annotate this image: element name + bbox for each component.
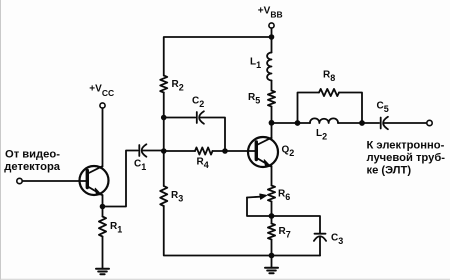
- resistor R4: [195, 147, 213, 154]
- node R6/R7/C3 junction: [269, 213, 275, 219]
- capacitor C3: [314, 234, 326, 256]
- +Vbb terminal: [269, 23, 274, 28]
- wire node to node: [163, 118, 165, 152]
- wire Vcc to Q1 collector: [102, 108, 104, 166]
- wire emitter node to C1: [103, 151, 138, 207]
- wire R1 to ground: [102, 237, 104, 269]
- svg-text:ке (ЭЛТ): ке (ЭЛТ): [367, 165, 412, 177]
- transistor Q2: [248, 137, 278, 167]
- +Vcc terminal: [100, 103, 105, 108]
- resistor R5: [268, 91, 275, 107]
- wire Q2 emitter to R6: [271, 166, 273, 186]
- node Q2 collector junction: [269, 120, 275, 126]
- inductor L2: [310, 118, 338, 123]
- node L2 left junction: [295, 120, 301, 126]
- node C2/R4 junction: [222, 148, 228, 154]
- node L2 right junction: [359, 120, 365, 126]
- wire node to R1: [102, 207, 104, 217]
- wire Q1 emitter to node: [102, 195, 104, 207]
- capacitor C2: [197, 111, 225, 151]
- wire top rail: [164, 37, 272, 76]
- node C1/R4/R3 junction: [161, 148, 167, 154]
- resistor R7: [268, 224, 275, 240]
- wire collector node to Q2: [271, 123, 273, 139]
- wire R2 to node: [163, 93, 165, 118]
- node bottom rail junction: [269, 253, 275, 259]
- wire C3 branch bottom: [272, 255, 321, 257]
- node R2/C2 junction: [161, 115, 167, 121]
- resistor R2: [160, 76, 167, 93]
- wire R6 to node: [271, 202, 273, 217]
- ground (below R1): [96, 269, 109, 275]
- wire R7 to bottom rail: [271, 240, 273, 256]
- wire R5 to collector node: [271, 107, 273, 123]
- wire C2 branch left: [164, 117, 196, 119]
- wire R8 branch left: [298, 93, 320, 124]
- wire C3 branch top: [272, 216, 321, 233]
- wire node to R3: [163, 151, 165, 186]
- wire L1 to R5: [271, 81, 273, 91]
- node Vbb junction: [269, 34, 275, 40]
- svg-text:детектора: детектора: [4, 161, 60, 173]
- output terminal: [427, 120, 432, 125]
- resistor R3: [160, 186, 167, 206]
- ground (below Q2 stage): [265, 256, 278, 274]
- input terminal: [17, 178, 22, 183]
- wire R4 to Q2 base: [213, 150, 256, 152]
- wire node to R4: [164, 150, 195, 152]
- resistor R6 (potentiometer): [268, 186, 275, 202]
- wire R6 wiper: [247, 194, 272, 216]
- wire R8 branch right: [339, 93, 362, 124]
- svg-text:От видео-: От видео-: [5, 149, 60, 161]
- inductor L1: [267, 52, 271, 80]
- wire node to L1: [271, 37, 273, 53]
- resistor R1: [99, 217, 106, 237]
- resistor R8: [319, 89, 339, 96]
- wire Vbb to node: [271, 28, 273, 37]
- capacitor C1: [139, 144, 163, 156]
- transistor Q1: [80, 166, 109, 195]
- svg-text:К электронно-: К электронно-: [367, 140, 445, 152]
- capacitor C5: [381, 117, 427, 129]
- node Q1 emitter junction: [100, 204, 106, 210]
- wire R3 to bottom rail: [164, 206, 272, 256]
- wire node to R7: [271, 216, 273, 224]
- wire input to Q1 base: [22, 180, 86, 182]
- svg-text:лучевой труб-: лучевой труб-: [367, 152, 446, 164]
- wire collector node to L2: [272, 122, 311, 124]
- wire L2 to node: [338, 122, 379, 124]
